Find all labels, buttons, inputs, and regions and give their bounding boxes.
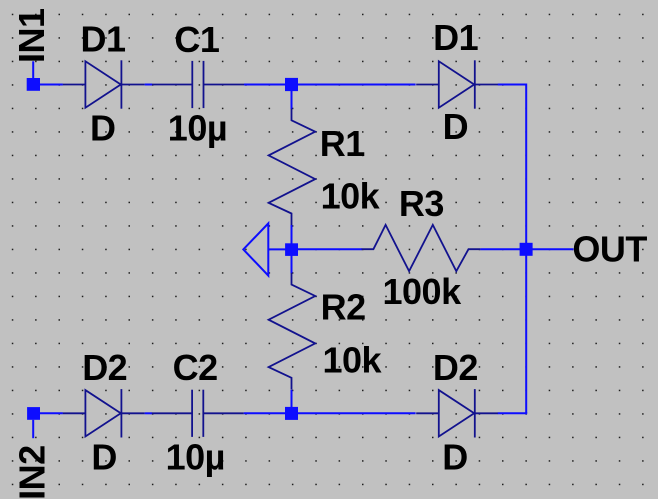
svg-text:10k: 10k xyxy=(323,340,383,381)
svg-text:10k: 10k xyxy=(321,175,381,216)
wire D2 to C2 xyxy=(145,412,153,414)
wire IN2 to D2 xyxy=(40,412,63,414)
svg-text:D: D xyxy=(443,106,469,147)
wire D1 to corner xyxy=(498,84,526,86)
node junction top xyxy=(285,78,298,91)
resistor R2 xyxy=(269,273,316,390)
svg-text:D1: D1 xyxy=(433,17,478,58)
wire node to R1 xyxy=(291,91,293,110)
node junction bottom xyxy=(285,407,298,420)
port IN2 xyxy=(27,407,40,420)
resistor R1 xyxy=(269,109,316,226)
svg-text:IN2: IN2 xyxy=(12,445,53,499)
svg-text:D: D xyxy=(91,436,117,477)
wire IN1 to D1 xyxy=(40,84,63,86)
svg-text:R1: R1 xyxy=(320,123,365,164)
wire right vertical bus xyxy=(525,84,527,414)
svg-text:R2: R2 xyxy=(321,286,366,327)
svg-text:10µ: 10µ xyxy=(168,107,227,148)
wire mid node to R3 xyxy=(297,248,362,250)
svg-text:C1: C1 xyxy=(174,19,219,60)
svg-text:C2: C2 xyxy=(173,347,218,388)
arrow symbol at middle node xyxy=(243,223,285,275)
capacitor C1 xyxy=(152,61,244,108)
svg-text:10µ: 10µ xyxy=(166,436,225,477)
diode D1 (left) xyxy=(63,60,145,108)
wire node to D1 right xyxy=(296,84,416,86)
svg-text:100k: 100k xyxy=(383,271,463,312)
resistor R3 xyxy=(362,225,481,271)
svg-text:IN1: IN1 xyxy=(11,8,52,63)
port IN2 antenna wire xyxy=(32,420,34,438)
diode D1 (right) xyxy=(416,60,498,108)
port IN1 antenna wire xyxy=(32,61,34,78)
svg-text:R3: R3 xyxy=(399,183,444,224)
wire mid node to R2 xyxy=(291,256,293,274)
wire C1 to node xyxy=(244,84,287,86)
wire node to D2 right xyxy=(296,412,416,414)
svg-text:D1: D1 xyxy=(81,19,126,60)
wire D1 to C1 xyxy=(145,84,153,86)
wire R3 to OUT node xyxy=(480,248,520,250)
wire D2 to corner xyxy=(498,412,527,414)
node junction middle xyxy=(285,243,298,256)
wire R1 to mid node xyxy=(291,225,293,244)
svg-text:D2: D2 xyxy=(433,347,478,388)
diode D2 (left) xyxy=(63,389,145,437)
svg-text:D: D xyxy=(90,107,116,148)
wire OUT node to label xyxy=(532,248,574,250)
svg-text:OUT: OUT xyxy=(572,228,647,269)
svg-text:D: D xyxy=(442,436,468,477)
svg-text:D2: D2 xyxy=(82,347,127,388)
port IN1 xyxy=(27,78,40,91)
node junction OUT xyxy=(520,243,533,256)
wire R2 to bottom node xyxy=(291,390,293,408)
diode D2 (right) xyxy=(416,389,498,437)
wire C2 to node xyxy=(244,412,287,414)
capacitor C2 xyxy=(152,390,244,437)
